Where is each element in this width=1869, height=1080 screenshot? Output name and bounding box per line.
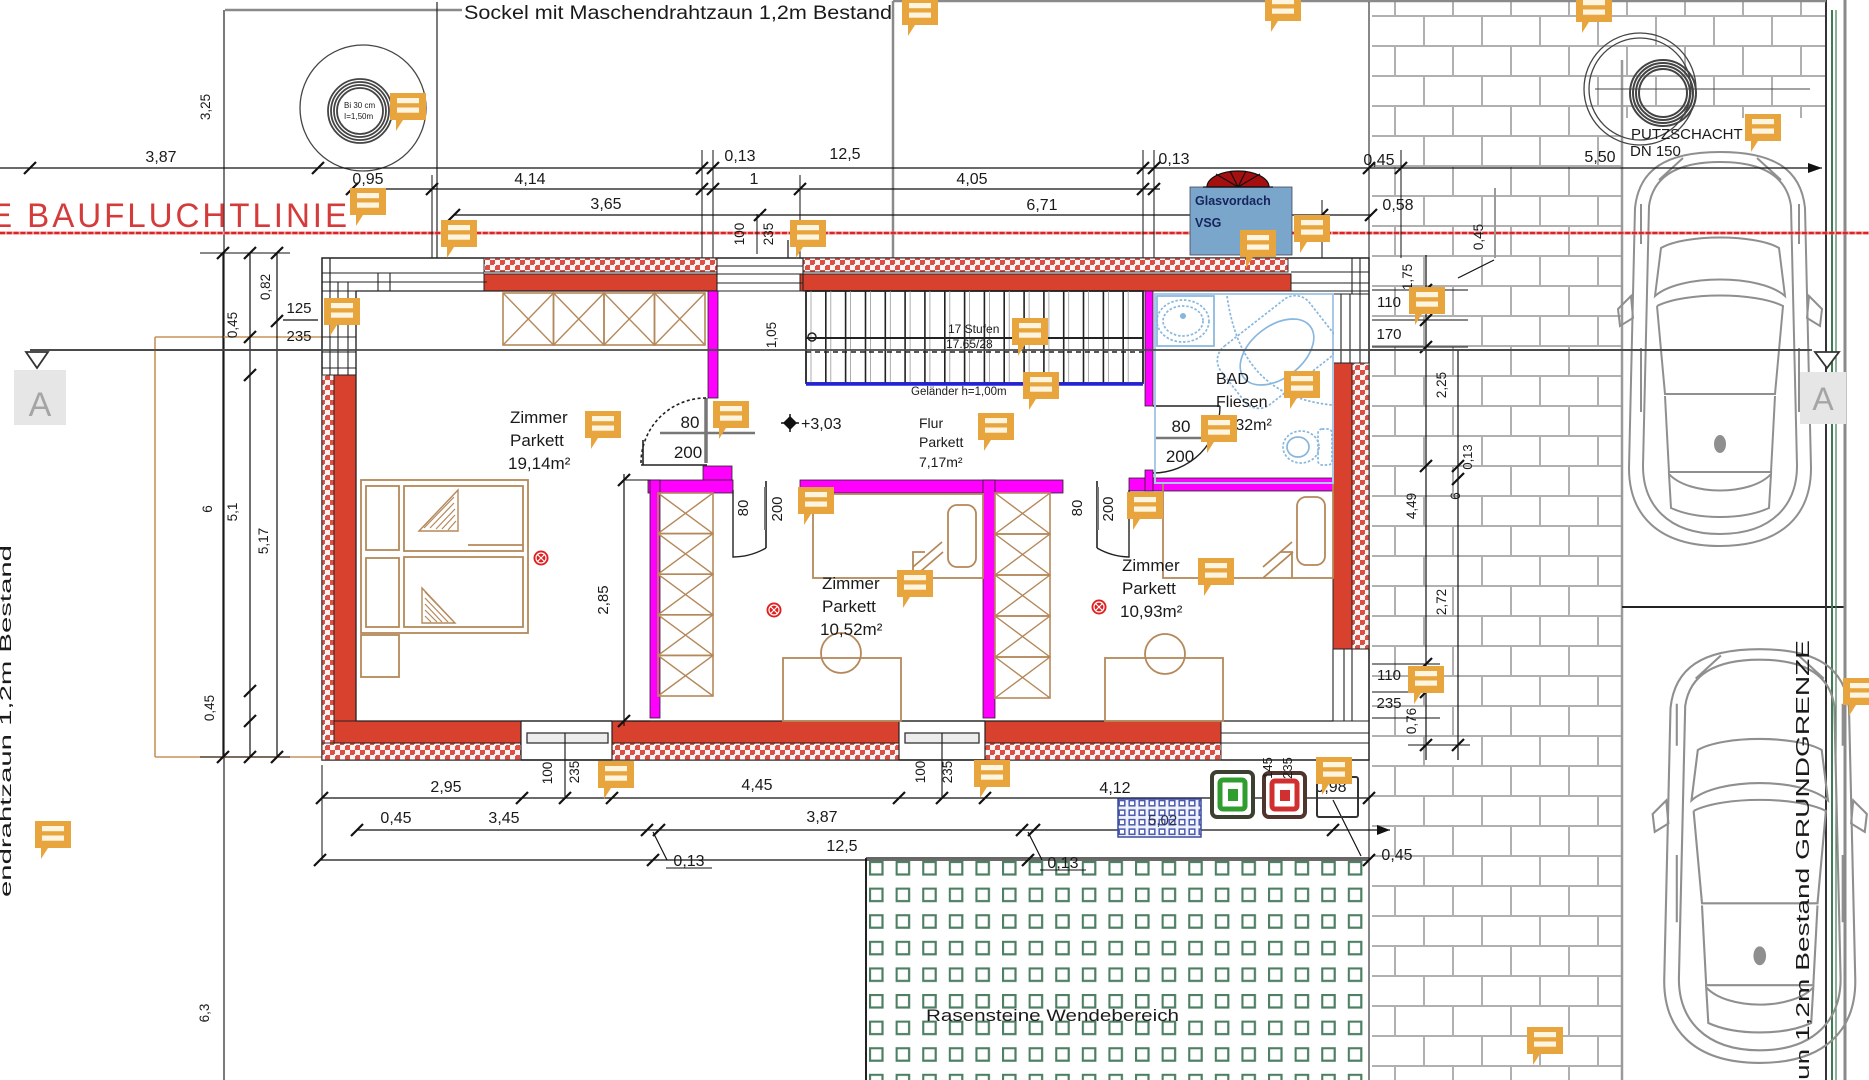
marker 29 xyxy=(1527,1027,1563,1065)
marker 4 xyxy=(1745,114,1781,152)
bed room 3 xyxy=(1163,483,1333,578)
section line A-A overlay xyxy=(30,349,1812,351)
magenta wall horizontal segment B xyxy=(800,480,1063,493)
plot vertical line left of tree xyxy=(223,10,225,1080)
marker 22 xyxy=(897,570,933,608)
svg-text:5,02: 5,02 xyxy=(1148,812,1177,829)
svg-text:3,65: 3,65 xyxy=(590,196,621,213)
blanket fold 2 xyxy=(422,588,455,623)
marker 14 xyxy=(713,401,749,439)
svg-text:235: 235 xyxy=(567,761,582,784)
svg-text:0,13: 0,13 xyxy=(1460,444,1475,469)
Putzschacht xyxy=(1584,33,1810,145)
svg-text:6: 6 xyxy=(200,505,215,513)
marker 18 xyxy=(1201,415,1237,453)
svg-text:4,12: 4,12 xyxy=(1099,780,1130,797)
door room 1 xyxy=(641,398,707,465)
red wall bottom segments xyxy=(334,721,521,743)
bottom extension verticals xyxy=(322,765,1369,860)
dimension 2,85 room1 xyxy=(595,474,650,727)
svg-text:235: 235 xyxy=(761,223,776,246)
chair room 2 xyxy=(821,633,861,673)
marker 19 xyxy=(1284,371,1320,409)
section arrow right xyxy=(1815,352,1839,368)
railing Gelaender blue xyxy=(806,382,1143,386)
marker 21 xyxy=(1127,492,1163,530)
top wall right corner thin part xyxy=(1288,258,1369,294)
svg-text:4,45: 4,45 xyxy=(741,777,772,794)
svg-text:10,93m²: 10,93m² xyxy=(1120,602,1183,621)
gray fence line far right xyxy=(1844,0,1847,1080)
svg-text:E BAUFLUCHTLINIE: E BAUFLUCHTLINIE xyxy=(0,197,350,235)
svg-text:5,50: 5,50 xyxy=(1584,149,1615,166)
svg-text:0,95: 0,95 xyxy=(352,171,383,188)
wardrobe room 2 xyxy=(658,493,713,696)
svg-text:Parkett: Parkett xyxy=(822,597,876,616)
svg-text:1: 1 xyxy=(750,171,759,188)
right wall window top xyxy=(1333,294,1369,363)
marker 12 xyxy=(324,298,360,336)
svg-text:0,45: 0,45 xyxy=(380,810,411,827)
svg-text:17.65/28: 17.65/28 xyxy=(946,337,993,351)
svg-text:0,82: 0,82 xyxy=(258,274,273,300)
svg-text:Sockel mit Maschendrahtzaun 1,: Sockel mit Maschendrahtzaun 1,2m Bestand xyxy=(464,3,892,24)
bed room 2 xyxy=(813,494,983,578)
svg-text:170: 170 xyxy=(1376,326,1401,343)
svg-text:0,13: 0,13 xyxy=(724,148,755,165)
svg-text:12,5: 12,5 xyxy=(826,838,857,855)
magenta wall vertical room divider 1 xyxy=(650,480,660,718)
left dimension chain xyxy=(197,94,290,1023)
room label Zimmer 3 xyxy=(1120,556,1183,621)
svg-text:0,45: 0,45 xyxy=(1363,152,1394,169)
svg-text:+3,03: +3,03 xyxy=(801,416,842,433)
svg-text:3,45: 3,45 xyxy=(488,810,519,827)
marker 6 xyxy=(350,188,386,226)
svg-text:2,72: 2,72 xyxy=(1434,589,1449,615)
room label Zimmer 2 xyxy=(820,574,883,639)
parking space divider xyxy=(1622,606,1846,608)
marker 24 xyxy=(1408,666,1444,704)
svg-text:4,49: 4,49 xyxy=(1404,493,1419,519)
insulation hatch bottom wall xyxy=(322,743,521,760)
svg-text:145: 145 xyxy=(1260,757,1275,779)
svg-text:4,14: 4,14 xyxy=(514,171,545,188)
svg-text:0,45: 0,45 xyxy=(1471,224,1486,250)
svg-text:12,5: 12,5 xyxy=(829,146,860,163)
wardrobe room 1 xyxy=(503,293,705,345)
svg-text:6,71: 6,71 xyxy=(1026,197,1057,214)
svg-text:7,17m²: 7,17m² xyxy=(919,454,963,470)
building outer outline xyxy=(322,258,1369,760)
bottom window 1 sill xyxy=(527,733,608,743)
svg-text:0,13: 0,13 xyxy=(1047,855,1078,872)
svg-text:80: 80 xyxy=(1172,417,1191,436)
svg-text:PUTZSCHACHT: PUTZSCHACHT xyxy=(1631,126,1743,143)
svg-text:19,14m²: 19,14m² xyxy=(508,454,571,473)
marker 7 xyxy=(441,220,477,258)
svg-text:6: 6 xyxy=(1448,492,1463,500)
svg-text:235: 235 xyxy=(1376,695,1401,712)
svg-text:Fliesen: Fliesen xyxy=(1216,394,1268,411)
svg-text:Parkett: Parkett xyxy=(919,434,963,450)
door room 2 xyxy=(733,481,766,557)
svg-text:Bi 30 cm: Bi 30 cm xyxy=(344,101,375,110)
magenta pier at door 1 xyxy=(703,466,732,481)
svg-text:0,45: 0,45 xyxy=(1381,847,1412,864)
svg-text:0,13: 0,13 xyxy=(673,853,704,870)
svg-text:125: 125 xyxy=(286,300,311,317)
marker 9 xyxy=(1240,230,1276,268)
blanket fold 1 xyxy=(419,490,458,531)
svg-text:80: 80 xyxy=(1069,500,1086,517)
svg-text:100: 100 xyxy=(732,223,747,246)
svg-text:Zimmer: Zimmer xyxy=(1122,556,1180,575)
svg-text:235: 235 xyxy=(286,328,311,345)
blue grid box 5,02 xyxy=(1118,799,1201,837)
insulation hatch top wall xyxy=(484,258,717,272)
corner bathtub xyxy=(1210,288,1344,415)
svg-text:0,45: 0,45 xyxy=(225,312,240,338)
svg-text:endrahtzaun 1,2m Bestand: endrahtzaun 1,2m Bestand xyxy=(0,545,15,897)
svg-text:0,58: 0,58 xyxy=(1382,197,1413,214)
double bed room 1 xyxy=(361,480,528,633)
door bath xyxy=(1153,406,1220,473)
marker 13 xyxy=(585,411,621,449)
tree circle xyxy=(300,45,426,171)
marker 17 xyxy=(1023,372,1059,410)
svg-text:5,1: 5,1 xyxy=(225,503,240,522)
svg-text:10,52m²: 10,52m² xyxy=(820,620,883,639)
section line A-A xyxy=(30,349,1810,351)
svg-text:Parkett: Parkett xyxy=(1122,579,1176,598)
svg-text:3,25: 3,25 xyxy=(198,94,213,120)
magenta wall horizontal segment C (bath bottom) xyxy=(1129,478,1333,491)
marker 8 xyxy=(790,220,826,258)
marker 20 xyxy=(798,487,834,525)
plot line black right xyxy=(1825,0,1827,1080)
marker 10 xyxy=(1294,215,1330,253)
extension line x437 xyxy=(436,2,438,258)
svg-text:Geländer h=1,00m: Geländer h=1,00m xyxy=(911,386,1007,398)
svg-text:A: A xyxy=(29,386,52,424)
svg-text:80: 80 xyxy=(735,500,752,517)
svg-text:200: 200 xyxy=(769,496,786,521)
top wall left thin part xyxy=(322,258,487,291)
svg-text:3,87: 3,87 xyxy=(806,809,837,826)
svg-text:80: 80 xyxy=(681,413,700,432)
svg-text:4,05: 4,05 xyxy=(956,171,987,188)
marker 2 xyxy=(1265,0,1301,32)
level mark +3,03 xyxy=(784,417,796,429)
marker 1 xyxy=(902,0,938,36)
bottom wall right thin corner xyxy=(1221,721,1369,760)
magenta wall horizontal segment A xyxy=(648,480,733,493)
right dimension chain xyxy=(1372,188,1495,760)
svg-text:100: 100 xyxy=(913,761,928,784)
Baufluchtlinie red line xyxy=(0,232,1869,235)
red wall right xyxy=(1333,363,1352,649)
svg-text:Glasvordach: Glasvordach xyxy=(1195,194,1271,208)
room label Bad xyxy=(1216,371,1272,434)
svg-text:200: 200 xyxy=(1100,496,1117,521)
marker 23 xyxy=(1198,558,1234,596)
svg-text:2,85: 2,85 xyxy=(595,585,612,614)
marker 15 xyxy=(978,413,1014,451)
svg-text:DN 150: DN 150 xyxy=(1630,143,1681,160)
green symbol xyxy=(1212,772,1253,817)
dimension row 1 bottom xyxy=(316,777,1375,804)
red wall left xyxy=(334,375,356,721)
section label A left xyxy=(14,370,66,425)
awning above Glasvordach xyxy=(1207,171,1269,187)
outline box bottom right xyxy=(1317,777,1358,817)
room label Zimmer 1 xyxy=(508,408,571,473)
marker 27 xyxy=(1316,757,1352,795)
svg-text:5,17: 5,17 xyxy=(256,528,271,554)
toilet xyxy=(1283,429,1332,465)
svg-text:BAD: BAD xyxy=(1216,371,1249,388)
svg-text:2,25: 2,25 xyxy=(1434,372,1449,398)
interior wall faces xyxy=(356,291,1333,721)
magenta wall bath left upper xyxy=(1145,291,1153,406)
outlet room1 xyxy=(534,551,549,566)
desk room 2 xyxy=(783,658,901,721)
svg-text:3,87: 3,87 xyxy=(145,149,176,166)
boundary green line GRUNDGRENZE xyxy=(1831,10,1833,1080)
parking strip boundary line xyxy=(1621,60,1624,1080)
svg-text:un 1,2m Bestand GRUNDGRENZE: un 1,2m Bestand GRUNDGRENZE xyxy=(1793,640,1813,1080)
svg-text:110: 110 xyxy=(1377,294,1401,311)
insulation hatch right wall xyxy=(1352,363,1369,649)
svg-text:1,05: 1,05 xyxy=(764,322,779,348)
Rasensteine area xyxy=(866,858,1369,1080)
section label A right xyxy=(1800,372,1846,424)
desk room 3 xyxy=(1105,658,1223,721)
outlet room3 xyxy=(1092,600,1107,615)
red wall top segments xyxy=(484,274,717,291)
svg-text:Flur: Flur xyxy=(919,415,943,431)
svg-text:17 Stufen: 17 Stufen xyxy=(948,322,999,336)
svg-text:Zimmer: Zimmer xyxy=(510,408,568,427)
marker 11 xyxy=(1409,287,1445,325)
car 2 xyxy=(1653,649,1867,1063)
marker 30 xyxy=(1843,678,1869,716)
marker 28 xyxy=(35,821,71,859)
svg-text:1,75: 1,75 xyxy=(1400,264,1415,290)
dimension row 3 bottom xyxy=(314,800,1413,872)
svg-text:110: 110 xyxy=(1377,667,1401,684)
insulation hatch left wall xyxy=(322,375,334,745)
marker 3 xyxy=(1576,0,1612,33)
svg-text:200: 200 xyxy=(1166,447,1194,466)
brick paving right of building xyxy=(1372,1,1827,118)
fence line top xyxy=(225,1,1826,10)
door room 3 xyxy=(1097,481,1129,557)
svg-text:Rasensteine Wendebereich: Rasensteine Wendebereich xyxy=(926,1006,1179,1025)
svg-text:Parkett: Parkett xyxy=(510,431,564,450)
right wall opening bottom xyxy=(1333,649,1369,721)
dimension row 2 top xyxy=(346,171,1160,195)
dimension row 3 top xyxy=(448,196,1414,221)
marker 26 xyxy=(974,760,1010,798)
washbasin xyxy=(1157,296,1214,346)
svg-text:2,95: 2,95 xyxy=(430,779,461,796)
svg-text:A: A xyxy=(1812,381,1834,417)
stair walk line arrow xyxy=(808,333,816,341)
Glasvordach box xyxy=(1190,187,1292,255)
svg-text:6,3: 6,3 xyxy=(197,1004,212,1023)
marker 25 xyxy=(598,761,634,799)
bedside table room 1 xyxy=(361,635,399,677)
red symbol xyxy=(1264,773,1305,817)
chair room 3 xyxy=(1145,634,1185,674)
room label Flur xyxy=(919,415,963,470)
svg-text:I=1,50m: I=1,50m xyxy=(344,112,373,121)
svg-text:0,45: 0,45 xyxy=(202,695,217,721)
top extension lines xyxy=(432,2,1401,1080)
bottom window 2 sill xyxy=(905,733,979,743)
top wall window 717-803 xyxy=(717,258,803,291)
marker 16 xyxy=(1012,318,1048,356)
svg-text:235: 235 xyxy=(1280,757,1295,779)
marker 5 xyxy=(390,93,426,131)
svg-text:200: 200 xyxy=(674,443,702,462)
dimension row 1 top xyxy=(0,146,1822,174)
wardrobe room 3 xyxy=(995,493,1050,698)
car 1 xyxy=(1618,152,1822,546)
magenta wall vertical room divider 2 xyxy=(983,480,995,718)
svg-text:Zimmer: Zimmer xyxy=(822,574,880,593)
magenta wall bath left lower stub xyxy=(1145,470,1153,491)
svg-text:0,76: 0,76 xyxy=(1404,708,1419,734)
staircase xyxy=(806,291,1143,383)
property line tan xyxy=(155,337,448,757)
section arrow left xyxy=(26,352,48,368)
svg-text:100: 100 xyxy=(540,762,555,785)
magenta wall vertical stair-side xyxy=(708,291,718,398)
left wall upper thin part xyxy=(322,258,356,375)
bathroom tile outline xyxy=(1155,294,1333,483)
svg-text:0,13: 0,13 xyxy=(1158,151,1189,168)
outlet room2 xyxy=(767,603,782,618)
svg-text:VSG: VSG xyxy=(1195,216,1221,230)
dimension row 2 bottom xyxy=(351,809,1390,836)
